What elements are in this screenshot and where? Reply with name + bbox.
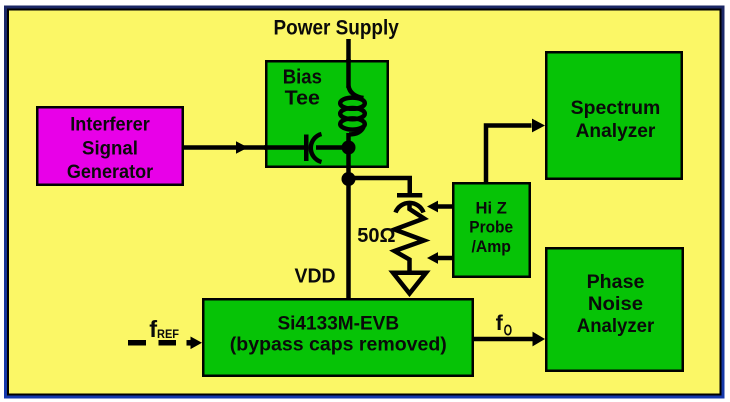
svg-text:50Ω: 50Ω bbox=[357, 225, 395, 247]
svg-text:Noise: Noise bbox=[588, 293, 643, 315]
svg-text:Signal: Signal bbox=[82, 138, 138, 159]
svg-text:Si4133M-EVB: Si4133M-EVB bbox=[277, 312, 399, 334]
svg-text:VDD: VDD bbox=[295, 266, 336, 288]
svg-text:/Amp: /Amp bbox=[471, 237, 511, 256]
svg-text:f: f bbox=[149, 316, 157, 342]
svg-text:Spectrum: Spectrum bbox=[571, 97, 661, 119]
svg-text:REF: REF bbox=[157, 327, 179, 341]
svg-text:Bias: Bias bbox=[283, 66, 322, 88]
svg-text:f: f bbox=[496, 311, 504, 335]
svg-text:Tee: Tee bbox=[285, 88, 320, 110]
svg-text:Analyzer: Analyzer bbox=[576, 120, 656, 142]
svg-text:O: O bbox=[504, 322, 512, 339]
svg-text:Generator: Generator bbox=[67, 162, 154, 183]
svg-text:Hi Z: Hi Z bbox=[476, 198, 507, 217]
svg-text:(bypass caps removed): (bypass caps removed) bbox=[230, 334, 447, 356]
svg-text:Power Supply: Power Supply bbox=[274, 16, 400, 39]
svg-text:Analyzer: Analyzer bbox=[577, 315, 655, 337]
svg-text:Phase: Phase bbox=[587, 271, 645, 293]
svg-text:Probe: Probe bbox=[469, 218, 513, 237]
svg-text:Interferer: Interferer bbox=[70, 115, 150, 136]
